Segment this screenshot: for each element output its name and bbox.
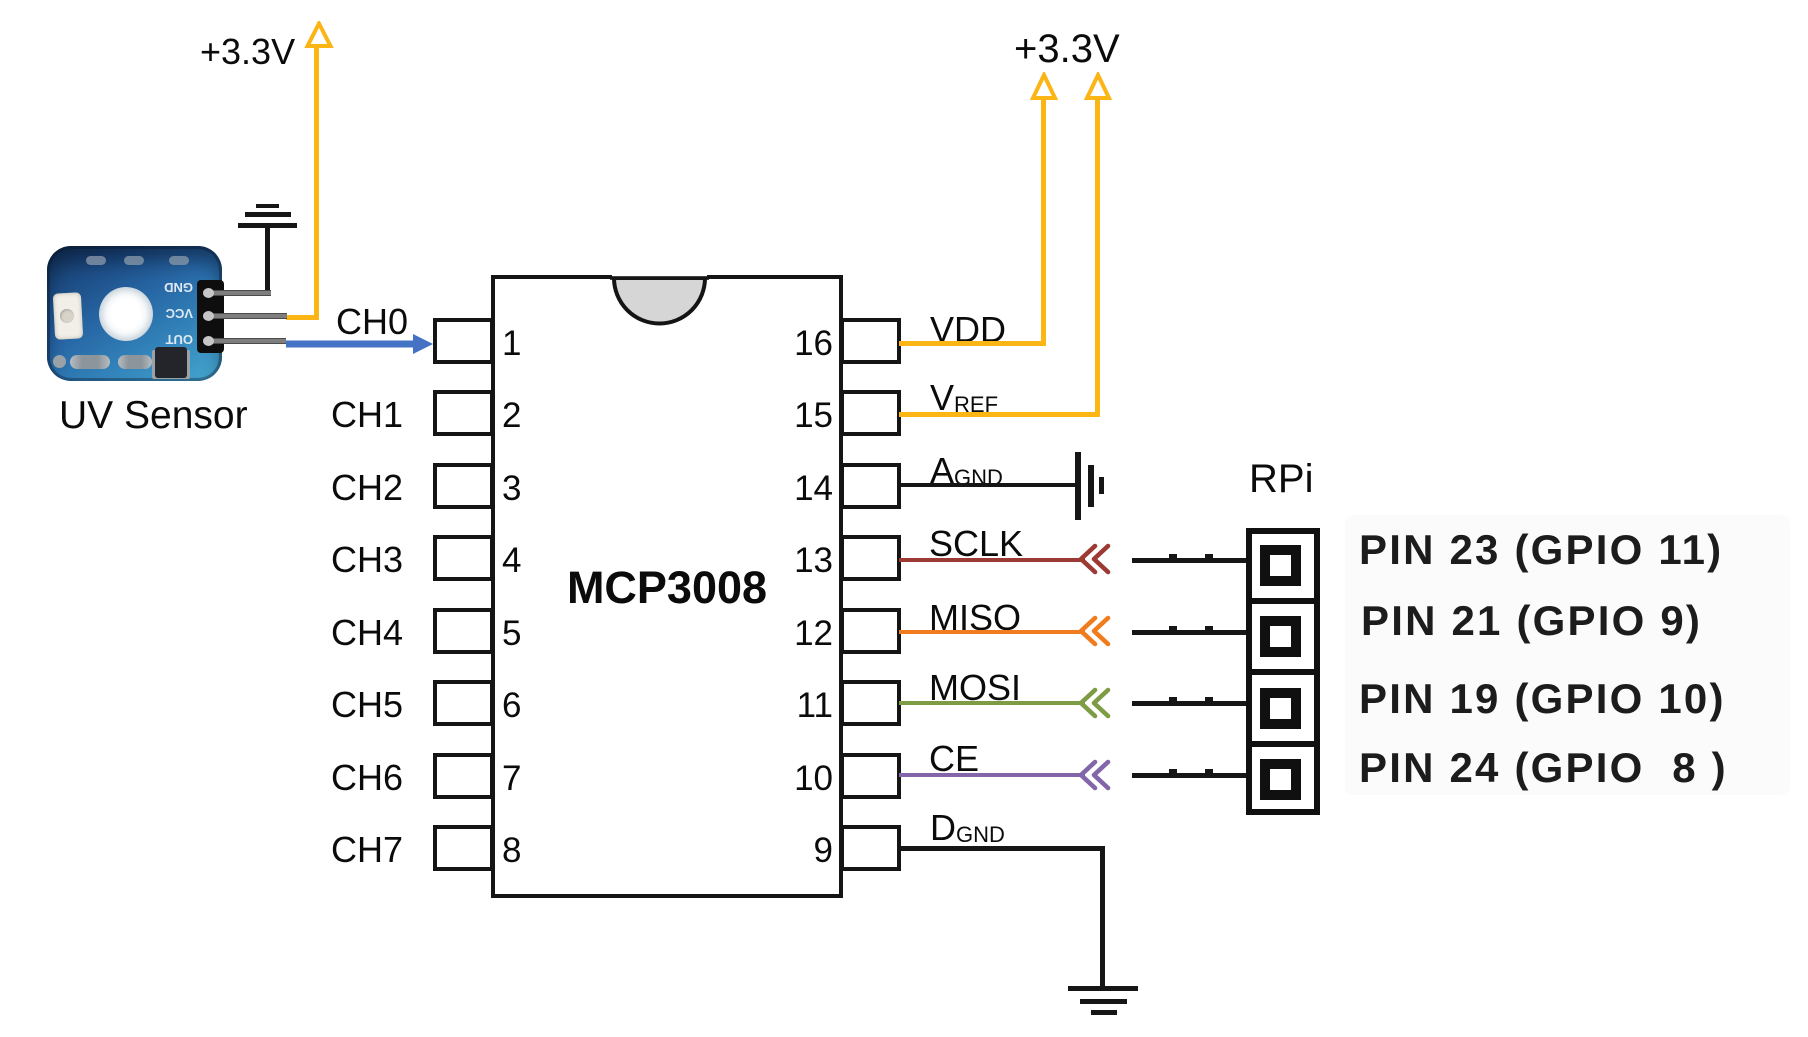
chevron SCLK	[1077, 543, 1113, 575]
wire ground stem	[265, 228, 270, 293]
pin number 12	[758, 608, 833, 654]
pin 8 box	[433, 825, 494, 871]
pin 13 box	[840, 535, 901, 581]
label +3.3V left	[200, 34, 295, 70]
wire VDD yellow vertical	[1041, 99, 1046, 346]
pin number 7	[502, 753, 521, 799]
node SCLK label	[929, 526, 1023, 562]
pin number 11	[758, 680, 833, 726]
wire SCLK	[899, 558, 1085, 562]
wire +3.3V left vertical yellow	[314, 45, 319, 319]
sensor UV LED	[53, 292, 83, 339]
sensor corner pad	[53, 355, 66, 368]
pin 6 box	[433, 680, 494, 726]
power arrow +3.3V (VDD)	[1028, 72, 1060, 102]
label RPi	[1249, 459, 1313, 499]
label +3.3V right	[1014, 29, 1120, 69]
label PIN 24	[1359, 747, 1728, 789]
label PIN 23	[1359, 529, 1723, 571]
connector divider 1	[1252, 598, 1314, 604]
pin number 6	[502, 680, 521, 726]
node MOSI label	[929, 670, 1021, 706]
ground symbol right (AGND)	[1075, 452, 1081, 520]
pin number 9	[758, 825, 833, 871]
wire VDD yellow horizontal	[899, 341, 1046, 346]
pin 9 box	[840, 825, 901, 871]
node VREF label	[930, 380, 998, 421]
pin 4 box	[433, 535, 494, 581]
connector pin square 4	[1260, 759, 1301, 800]
pin number 14	[758, 463, 833, 509]
pin number 13	[758, 535, 833, 581]
wire CH0 blue arrow	[286, 330, 436, 358]
connector RPi header outline	[1246, 528, 1320, 815]
node DGND label	[930, 810, 1005, 851]
wire CE	[899, 773, 1085, 777]
sensor header black	[197, 280, 224, 353]
pin number 3	[502, 463, 521, 509]
node CH0 label	[336, 304, 408, 340]
node CH4 label	[331, 608, 403, 654]
pin number 1	[502, 318, 521, 364]
pin number 2	[502, 390, 521, 436]
wire DGND horizontal	[899, 846, 1105, 851]
dashed link CE to RPi	[1132, 773, 1262, 778]
pin 15 box	[840, 390, 901, 436]
pin 11 box	[840, 680, 901, 726]
wire MISO	[899, 630, 1085, 634]
connector pin square 3	[1260, 688, 1301, 729]
node CH2 label	[331, 463, 403, 509]
dashed link MISO to RPi	[1132, 630, 1262, 635]
pin number 15	[758, 390, 833, 436]
node CH3 label	[331, 535, 403, 581]
pin 1 box	[433, 318, 494, 364]
label PIN 19	[1359, 678, 1726, 720]
sensor IC	[155, 347, 187, 378]
pin number 16	[758, 318, 833, 364]
node MISO label	[929, 600, 1021, 636]
node CH5 label	[331, 680, 403, 726]
sensor pin OUT	[205, 338, 286, 344]
pin 12 box	[840, 608, 901, 654]
chevron MOSI	[1077, 687, 1113, 719]
ground symbol top-left (inverted)	[256, 204, 279, 208]
pin 7 box	[433, 753, 494, 799]
sensor hole white circle	[99, 287, 153, 341]
node VDD label	[930, 312, 1006, 348]
pin 14 box	[840, 463, 901, 509]
dashed link MOSI to RPi	[1132, 701, 1262, 706]
scan haze behind PIN labels	[1345, 515, 1790, 795]
sensor top pads	[86, 256, 106, 265]
node CH7 label	[331, 825, 403, 871]
UV sensor board	[47, 246, 222, 381]
node AGND label	[930, 453, 1003, 494]
connector divider 2	[1252, 669, 1314, 675]
ground symbol bottom	[1068, 986, 1138, 991]
pin 16 box	[840, 318, 901, 364]
pin number 4	[502, 535, 521, 581]
wire DGND vertical	[1100, 846, 1105, 988]
chevron CE	[1077, 759, 1113, 791]
connector pin square 1	[1260, 545, 1301, 586]
wire VCC yellow elbow horizontal	[286, 315, 319, 320]
node CH1 label	[331, 390, 403, 436]
wire AGND black	[899, 483, 1078, 487]
label MCP3008	[491, 565, 843, 610]
sensor pin GND	[205, 290, 271, 296]
pin number 5	[502, 608, 521, 654]
node CE label	[929, 741, 979, 777]
connector pin square 2	[1260, 616, 1301, 657]
sensor pin pads	[203, 288, 214, 298]
pin 10 box	[840, 753, 901, 799]
pin number 10	[758, 753, 833, 799]
connector divider 3	[1252, 741, 1314, 747]
power arrow +3.3V left	[302, 21, 336, 51]
wire VREF yellow vertical	[1095, 99, 1100, 417]
sensor bottom resistors	[70, 355, 110, 369]
dashed link SCLK to RPi	[1132, 558, 1262, 563]
label UV Sensor	[59, 396, 248, 435]
pin number 8	[502, 825, 521, 871]
power arrow +3.3V (VREF)	[1082, 72, 1114, 102]
chip notch	[604, 271, 724, 333]
wire VREF yellow horizontal	[899, 412, 1100, 417]
pin 3 box	[433, 463, 494, 509]
sensor silk labels	[163, 280, 193, 295]
wire MOSI	[899, 701, 1085, 705]
chevron MISO	[1077, 615, 1113, 647]
sensor pin VCC	[205, 313, 287, 319]
chip MCP3008 body	[491, 275, 843, 898]
node CH6 label	[331, 753, 403, 799]
pin 2 box	[433, 390, 494, 436]
label PIN 21	[1361, 600, 1702, 642]
pin 5 box	[433, 608, 494, 654]
